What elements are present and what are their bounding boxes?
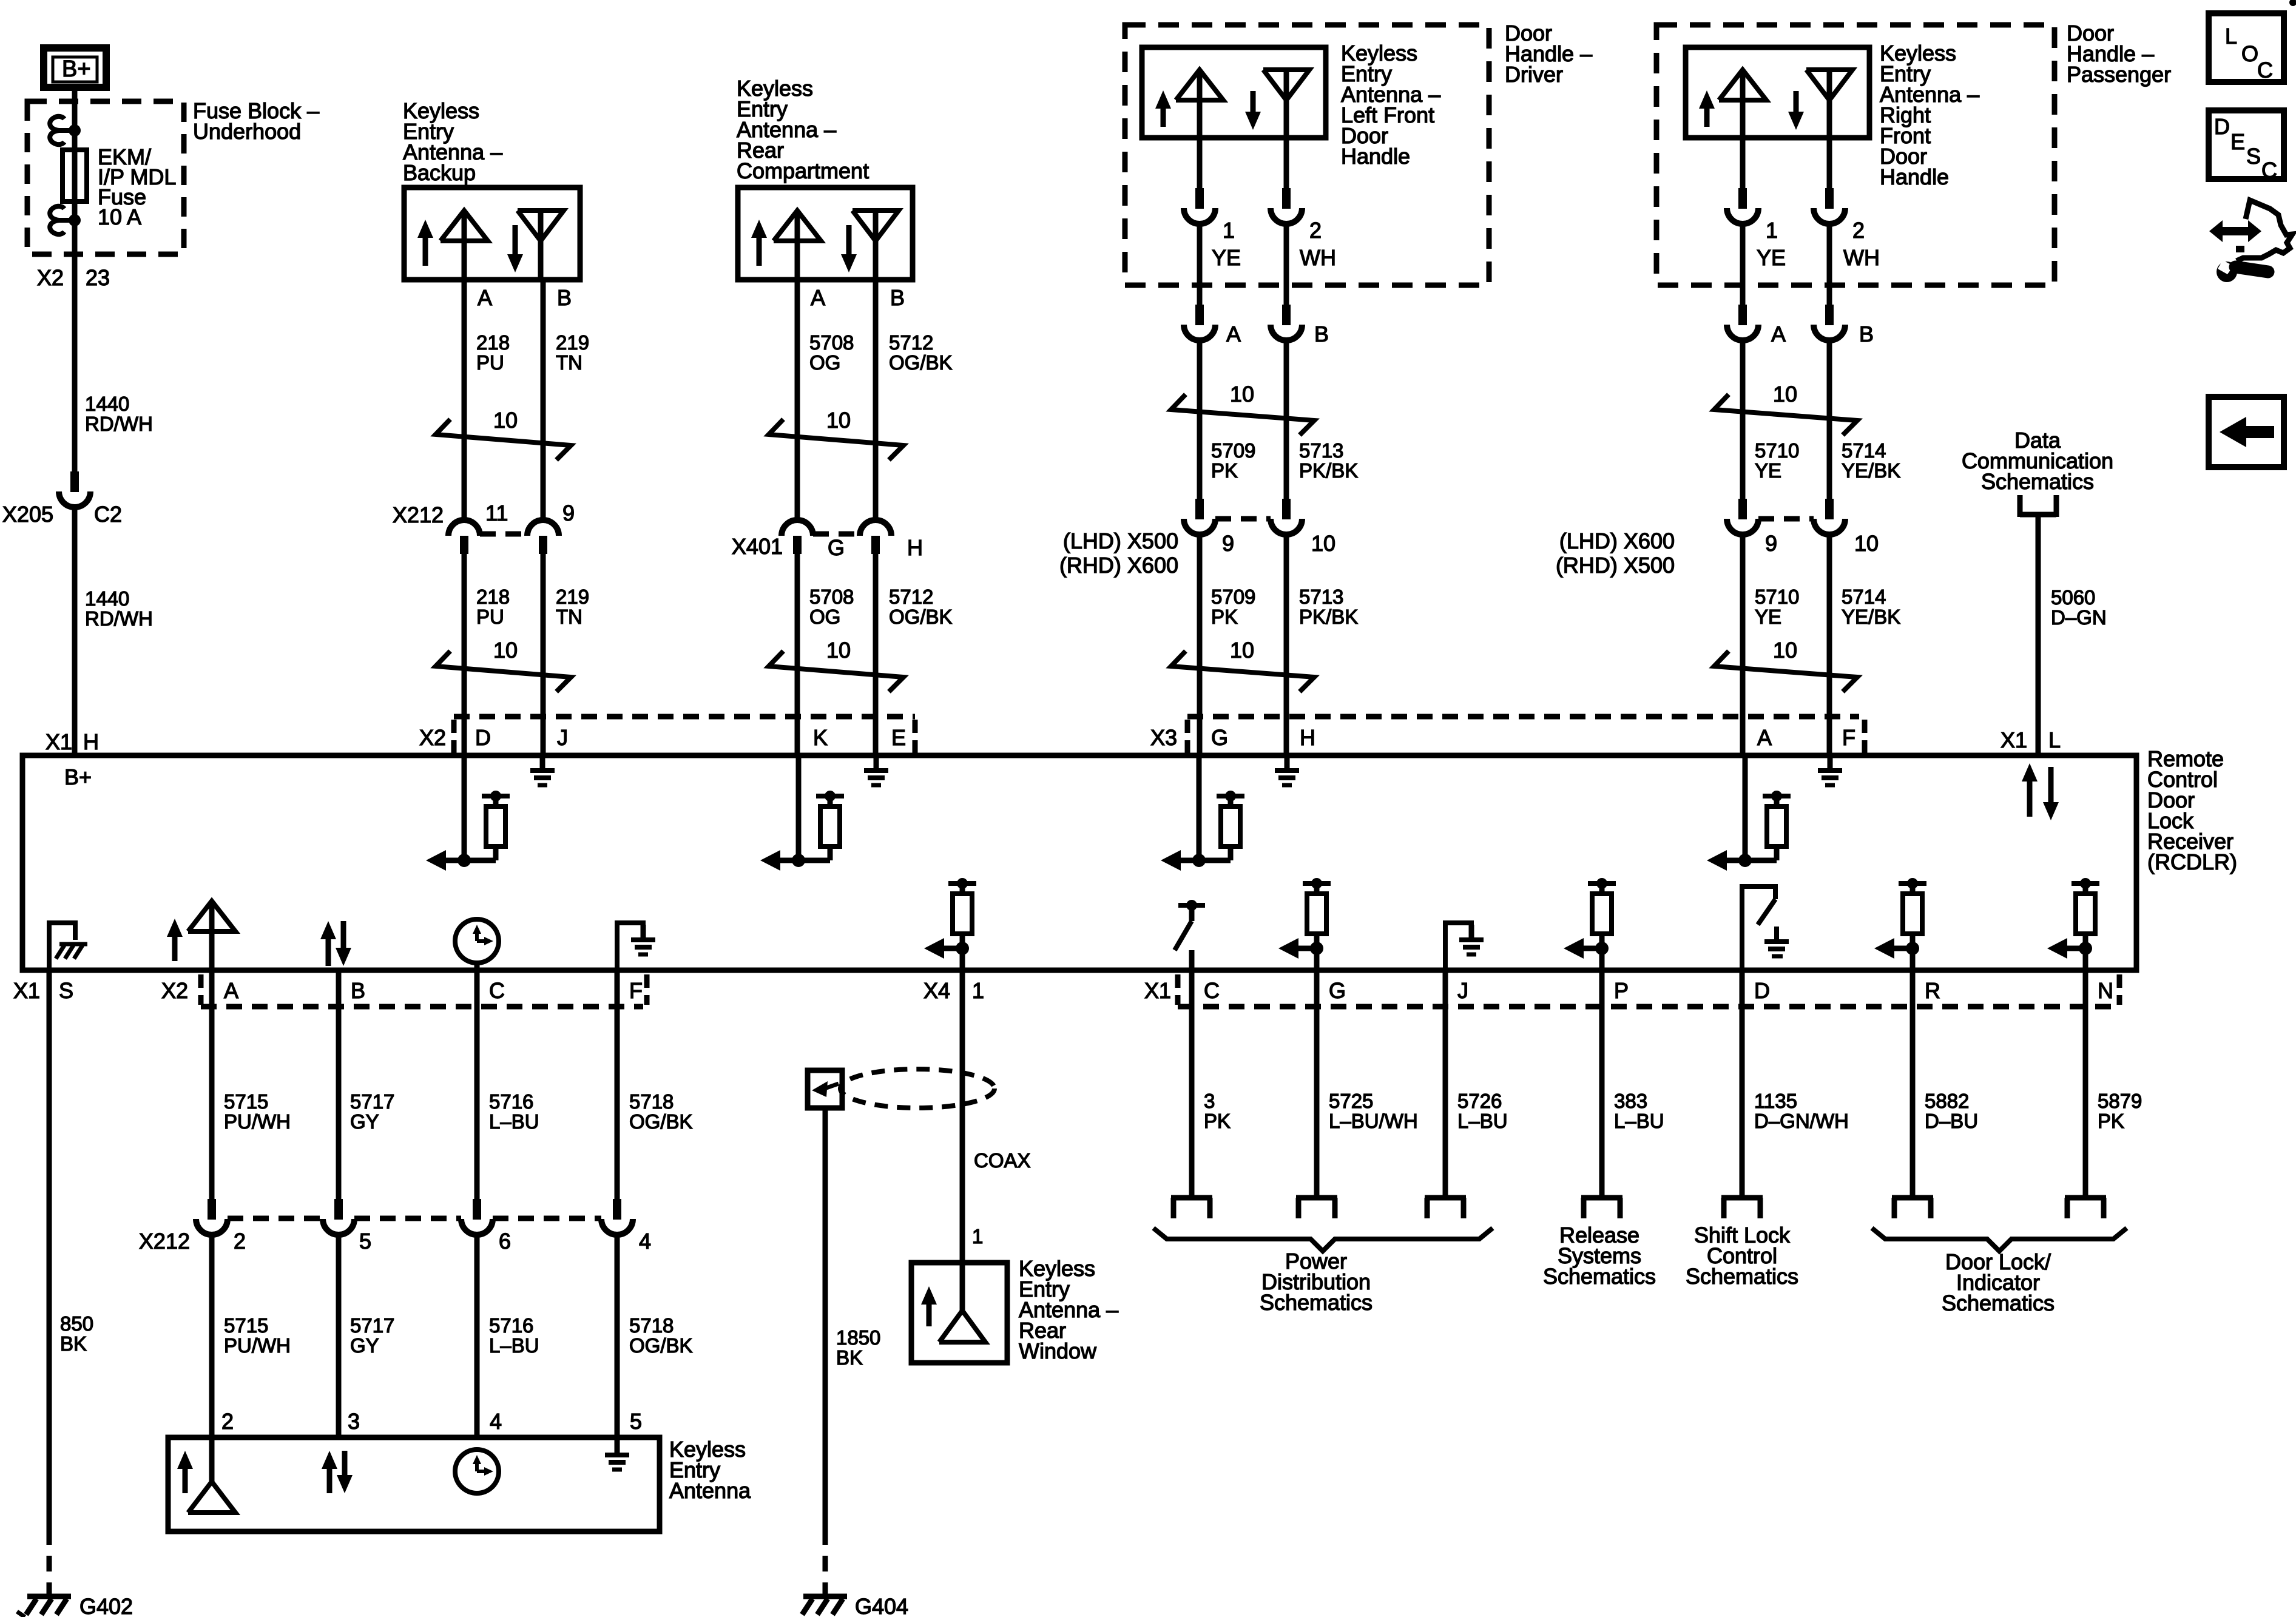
svg-text:PU/WH: PU/WH (224, 1334, 291, 1357)
wire COAX upper (960, 970, 965, 1263)
driver door handle connector pin 2 (1271, 188, 1302, 224)
svg-text:B+: B+ (62, 56, 91, 82)
backup antenna up arrow (417, 220, 433, 266)
driver receive antenna (1263, 70, 1309, 138)
svg-text:6: 6 (499, 1229, 511, 1254)
driver antenna down arrow (1245, 91, 1261, 130)
wire labels 218 PU / 219 TN lower (476, 586, 589, 628)
connector X212 pin 2 (196, 1199, 228, 1235)
svg-text:Antenna: Antenna (669, 1478, 751, 1503)
svg-text:Underhood: Underhood (193, 119, 301, 144)
svg-text:Schematics: Schematics (1942, 1291, 2055, 1315)
keyless antenna up arrow (177, 1451, 193, 1493)
bus connection hook lower (50, 206, 75, 234)
svg-text:1: 1 (1766, 218, 1778, 243)
svg-text:5718: 5718 (629, 1090, 674, 1113)
data link terminal (2020, 495, 2056, 517)
connector X212 dashed link (480, 532, 527, 537)
wire 5713 PK/BK lower (1284, 535, 1289, 755)
svg-text:23: 23 (86, 265, 110, 290)
svg-text:GY: GY (350, 1110, 379, 1133)
svg-text:9: 9 (1765, 531, 1777, 556)
svg-text:10 A: 10 A (98, 204, 141, 229)
rear pin labels A B (811, 285, 905, 310)
svg-text:2: 2 (1852, 218, 1865, 243)
svg-text:5882: 5882 (1925, 1090, 1969, 1112)
svg-text:X401: X401 (732, 534, 783, 559)
wire label COAX (974, 1149, 1031, 1172)
svg-text:4: 4 (490, 1409, 502, 1434)
wire labels 5715/5717/5716/5718 upper (224, 1090, 693, 1133)
svg-text:BK: BK (836, 1346, 863, 1369)
door handle passenger label (2067, 21, 2171, 87)
passenger antenna wire 1 (1740, 138, 1746, 188)
svg-text:PU: PU (476, 606, 504, 628)
svg-text:5717: 5717 (350, 1090, 394, 1113)
wire 5715 PU/WH lower (209, 1235, 215, 1437)
svg-text:5716: 5716 (489, 1314, 533, 1337)
passenger wire WH (1827, 224, 1832, 305)
rear antenna up arrow (751, 220, 767, 266)
RCDLR switch pin C2 (1175, 900, 1205, 970)
wire 5709 PK lower (1197, 535, 1203, 755)
wire 5716 L-BU upper (474, 970, 480, 1199)
svg-text:TN: TN (556, 351, 582, 374)
door handle driver label (1505, 21, 1592, 87)
svg-text:A: A (478, 285, 492, 310)
svg-text:10: 10 (826, 638, 851, 663)
shift lock control schematics label (1686, 1223, 1798, 1289)
pigtail terminal pin N (2065, 1198, 2106, 1218)
passenger connector pin A (1727, 305, 1758, 340)
svg-text:9: 9 (562, 501, 575, 525)
passenger door handle connector pin 2 (1814, 188, 1845, 224)
svg-text:5718: 5718 (629, 1314, 674, 1337)
LOC icon (2209, 13, 2284, 83)
svg-text:GY: GY (350, 1334, 379, 1357)
svg-text:218: 218 (476, 331, 510, 354)
svg-text:S: S (59, 978, 73, 1003)
wire labels 218 PU / 219 TN upper (476, 331, 589, 374)
svg-text:H: H (1300, 725, 1315, 750)
passenger antenna down arrow (1788, 91, 1804, 130)
svg-text:COAX: COAX (974, 1149, 1031, 1172)
connector X212 pin 5 (323, 1199, 354, 1235)
svg-text:B: B (351, 978, 365, 1003)
svg-text:11: 11 (485, 501, 508, 525)
RCDLR RF input pin G (1161, 755, 1244, 871)
driver connector pin B (1271, 305, 1302, 340)
connector X500 pin 10 (1271, 499, 1302, 535)
svg-text:5717: 5717 (350, 1314, 394, 1337)
pigtail terminal pin R (1892, 1198, 1933, 1218)
coax shield dashed ellipse (840, 1069, 994, 1108)
keyless antenna ground (605, 1437, 629, 1470)
svg-text:D–GN: D–GN (2051, 606, 2107, 629)
svg-text:X3: X3 (1150, 725, 1177, 750)
passenger transmit antenna (1719, 70, 1766, 138)
svg-text:L: L (2225, 24, 2237, 49)
wire labels 5708 OG / 5712 OG/BK upper (809, 331, 953, 374)
bottom pin labels X2 A B C F (161, 978, 643, 1003)
svg-text:B: B (890, 285, 905, 310)
twisted pair marker 10 (backup lower) (436, 638, 571, 692)
pin label X1 H (46, 729, 99, 754)
wire label 1850 BK (836, 1326, 880, 1369)
svg-text:X1: X1 (13, 978, 40, 1003)
RCDLR antenna pin A2 (167, 901, 235, 970)
wire 219 TN upper (541, 280, 546, 520)
twisted pair marker 10 (rear upper) (769, 408, 903, 460)
page mark bottom left (17, 1612, 25, 1617)
RCDLR clock pin C (455, 919, 499, 970)
wire 218 PU lower (462, 554, 467, 755)
svg-text:PK/BK: PK/BK (1299, 606, 1358, 628)
svg-text:S: S (2246, 144, 2261, 169)
connector X600 pin 10 (1814, 499, 1845, 535)
wire label 1440 RD/WH (upper) (85, 393, 153, 435)
connector X401 labels (732, 534, 923, 560)
keyless entry antenna backup label (403, 98, 502, 185)
driver antenna up arrow (1155, 90, 1171, 127)
twisted pair marker 10 (backup upper) (436, 408, 571, 460)
wire 5714 YE/BK lower (1827, 535, 1832, 755)
svg-text:5710: 5710 (1755, 586, 1799, 608)
svg-text:B: B (1859, 322, 1874, 346)
RCDLR module box (22, 755, 2136, 970)
wire 5060 D-GN (2036, 515, 2041, 755)
twisted pair marker 10 (passenger lower) (1714, 638, 1857, 692)
svg-text:219: 219 (556, 331, 589, 354)
page mark top right (2289, 0, 2296, 6)
svg-text:YE: YE (1757, 245, 1786, 270)
keyless entry antenna rear compartment label (737, 76, 869, 183)
svg-text:K: K (813, 725, 828, 750)
pigtail terminal pin G (1296, 1198, 1337, 1218)
svg-text:4: 4 (639, 1229, 651, 1254)
driver wire WH (1284, 224, 1289, 305)
door handle driver dashed outline (1125, 25, 1489, 285)
bottom pin labels X1 C G J P D R N (1144, 978, 2113, 1003)
svg-text:A: A (1757, 725, 1772, 750)
wire 5726 L-BU (1443, 970, 1448, 1198)
passenger wire color labels YE WH (1757, 245, 1880, 270)
wire 5709 PK upper (1197, 340, 1203, 499)
svg-text:383: 383 (1614, 1090, 1647, 1112)
wire 850 BK (47, 970, 52, 1596)
RCDLR rx-tx arrows pin B (320, 921, 351, 966)
backup transmit antenna (441, 211, 488, 280)
svg-text:N: N (2098, 978, 2113, 1003)
RCDLR internal B+ label (64, 765, 92, 789)
wire label 383 L-BU (1614, 1090, 1664, 1132)
keyless antenna transmit antenna (188, 1437, 235, 1513)
svg-text:5725: 5725 (1329, 1090, 1373, 1112)
svg-text:X212: X212 (139, 1229, 190, 1254)
junction dot lower (69, 214, 81, 226)
RCDLR name label (2147, 746, 2237, 874)
svg-text:5716: 5716 (489, 1090, 533, 1113)
pigtail terminal pin J (1425, 1198, 1466, 1218)
svg-text:A: A (224, 978, 238, 1003)
svg-text:1: 1 (972, 978, 984, 1003)
bottom pin labels X4 1 (923, 978, 984, 1003)
svg-text:5709: 5709 (1211, 439, 1255, 462)
wire labels 5708 OG / 5712 OG/BK lower (809, 586, 953, 628)
svg-text:(RHD) X600: (RHD) X600 (1059, 553, 1178, 578)
wire 383 L-BU (1599, 970, 1605, 1198)
wire 5710 YE lower (1740, 535, 1746, 755)
svg-text:5714: 5714 (1842, 439, 1886, 462)
svg-text:1135: 1135 (1754, 1090, 1797, 1112)
connector X212 pin 11 (448, 520, 480, 554)
svg-text:A: A (1226, 322, 1241, 346)
svg-text:2: 2 (234, 1229, 246, 1254)
svg-text:5715: 5715 (224, 1314, 268, 1337)
svg-text:X2: X2 (37, 265, 64, 290)
connector X401 dashed link (813, 532, 860, 537)
svg-text:5713: 5713 (1299, 439, 1343, 462)
svg-text:850: 850 (60, 1312, 93, 1335)
RCDLR RF input pin D (426, 755, 510, 871)
svg-text:5060: 5060 (2051, 586, 2095, 609)
connector X2 dashed row (top) (454, 717, 915, 754)
svg-text:X1: X1 (1144, 978, 1171, 1003)
svg-text:Schematics: Schematics (1543, 1264, 1656, 1289)
svg-text:P: P (1614, 978, 1629, 1003)
driver antenna label (1341, 41, 1440, 169)
pigtail terminal pin D (1721, 1198, 1763, 1218)
wire 5714 YE/BK upper (1827, 340, 1832, 499)
svg-text:Window: Window (1019, 1338, 1097, 1363)
passenger antenna up arrow (1699, 90, 1715, 127)
rear transmit antenna (774, 211, 821, 280)
connector X1 dashed row (bottom) (1178, 974, 2119, 1007)
RCDLR RF input pin N (2047, 878, 2099, 970)
svg-text:10: 10 (1230, 382, 1254, 407)
coax shield box (808, 1070, 842, 1108)
rear receive antenna (853, 211, 899, 280)
RCDLR RF input pin P (1564, 878, 1616, 970)
svg-text:Schematics: Schematics (1981, 469, 2094, 494)
svg-text:TN: TN (556, 606, 582, 628)
svg-text:X2: X2 (161, 978, 188, 1003)
keyless entry antenna pin labels 2 3 4 5 (221, 1409, 642, 1434)
svg-text:5708: 5708 (809, 331, 854, 354)
svg-text:X1: X1 (2001, 727, 2027, 752)
svg-text:H: H (907, 535, 923, 560)
svg-text:1: 1 (972, 1225, 983, 1247)
svg-text:PU/WH: PU/WH (224, 1110, 291, 1133)
svg-text:5726: 5726 (1457, 1090, 1502, 1112)
wire labels 5709 PK / 5713 PK-BK upper (1211, 439, 1358, 482)
svg-text:C: C (2257, 58, 2273, 83)
fuse block label (193, 98, 319, 144)
svg-text:Passenger: Passenger (2067, 62, 2171, 87)
passenger pin labels 1 2 (1766, 218, 1865, 243)
svg-text:PK: PK (1211, 606, 1238, 628)
driver wire color labels YE WH (1212, 245, 1336, 270)
svg-text:5710: 5710 (1755, 439, 1799, 462)
twisted pair marker 10 (driver lower) (1171, 638, 1314, 692)
wire 5712 OG/BK lower (873, 554, 879, 755)
RCDLR RF input pin K (760, 755, 844, 871)
connector X500 pin 9 (1184, 499, 1215, 535)
svg-text:C: C (2261, 158, 2277, 183)
rear window antenna pin 1 (972, 1225, 983, 1247)
svg-text:Compartment: Compartment (737, 158, 869, 183)
connector X401 pin G (782, 520, 813, 554)
back arrow icon (2209, 397, 2284, 467)
svg-text:C: C (1204, 978, 1220, 1003)
svg-text:A: A (811, 285, 825, 310)
svg-text:D: D (475, 725, 491, 750)
release systems schematics label (1543, 1223, 1656, 1289)
connector X212 bottom labels (139, 1229, 651, 1254)
wire labels 5710 YE / 5714 YE-BK upper (1755, 439, 1900, 482)
passenger connector pin B (1814, 305, 1845, 340)
passenger wire YE (1740, 224, 1746, 305)
pin label X1 L (2001, 727, 2061, 752)
passenger door handle connector pin 1 (1727, 188, 1758, 224)
svg-text:C: C (489, 978, 505, 1003)
connector X500 dashed link (1215, 516, 1271, 522)
rear window antenna symbol (921, 1263, 985, 1342)
svg-text:YE: YE (1755, 606, 1781, 628)
wire label 5882 D-BU (1925, 1090, 1978, 1132)
svg-text:L–BU: L–BU (1614, 1110, 1664, 1132)
svg-text:B+: B+ (64, 765, 92, 789)
svg-text:C2: C2 (94, 502, 122, 527)
svg-text:10: 10 (493, 408, 518, 433)
wire 219 TN lower (541, 554, 546, 755)
svg-text:B: B (1314, 322, 1329, 346)
connector X401 pin H (860, 520, 891, 554)
wire labels 5715/5717/5716/5718 lower (224, 1314, 693, 1357)
connector X212 bottom dashed link (228, 1216, 601, 1221)
wire labels 3 PK / 5725 / 5726 (1204, 1090, 1508, 1132)
svg-text:(LHD) X500: (LHD) X500 (1063, 528, 1178, 553)
svg-text:10: 10 (1773, 382, 1797, 407)
fuse block dashed outline (27, 101, 184, 254)
svg-text:2: 2 (221, 1409, 234, 1434)
RCDLR RF input pin A (1707, 755, 1791, 871)
wire 5717 GY lower (336, 1235, 342, 1437)
DESC icon (2209, 110, 2284, 183)
svg-text:1: 1 (1223, 218, 1235, 243)
svg-text:X1: X1 (46, 729, 72, 754)
RCDLR ground pin J2 (1445, 923, 1484, 970)
connector X212 labels (393, 501, 575, 527)
RCDLR ground pin H (1275, 755, 1299, 785)
svg-text:5712: 5712 (889, 586, 933, 608)
passenger antenna label (1880, 41, 1979, 189)
svg-text:G404: G404 (855, 1594, 908, 1617)
RCDLR data arrows pin L (2022, 763, 2059, 820)
wire 5715 PU/WH upper (209, 970, 215, 1199)
svg-text:3: 3 (1204, 1090, 1215, 1112)
wire labels 5710 YE / 5714 YE-BK lower (1755, 586, 1900, 628)
svg-text:PK: PK (1211, 459, 1238, 482)
svg-text:J: J (1457, 978, 1468, 1003)
keyless entry antenna rear compartment box (738, 187, 913, 280)
svg-text:3: 3 (348, 1409, 360, 1434)
keyless antenna rx-tx arrows (322, 1451, 353, 1493)
passenger antenna wire 2 (1827, 138, 1832, 188)
RCDLR ground pin E (864, 755, 888, 785)
svg-text:B: B (557, 285, 572, 310)
svg-text:E: E (891, 725, 906, 750)
passenger receive antenna (1806, 70, 1852, 138)
fuse block pin labels X2 23 (37, 265, 110, 290)
passenger pin labels A B (1771, 322, 1874, 346)
svg-text:YE: YE (1212, 245, 1241, 270)
bus connection hook upper (50, 116, 75, 144)
svg-text:WH: WH (1300, 245, 1336, 270)
backup antenna down arrow (507, 225, 523, 272)
svg-text:5715: 5715 (224, 1090, 268, 1113)
svg-text:YE/BK: YE/BK (1842, 459, 1900, 482)
driver transmit antenna (1176, 70, 1223, 138)
wire 5725 L-BU/WH (1314, 970, 1320, 1198)
svg-text:G: G (1211, 725, 1228, 750)
driver connector pin A (1184, 305, 1215, 340)
svg-text:G: G (1329, 978, 1346, 1003)
door lock indicator schematics label (1942, 1249, 2055, 1315)
wire 5710 YE upper (1740, 340, 1746, 499)
wire 5718 OG/BK upper (615, 970, 620, 1199)
svg-text:10: 10 (1230, 638, 1254, 663)
wire 218 PU upper (462, 280, 467, 520)
RCDLR RF input pin G2 (1278, 878, 1331, 970)
svg-text:5879: 5879 (2098, 1090, 2142, 1112)
door lock indicator brace (1872, 1228, 2127, 1251)
svg-text:L–BU: L–BU (1457, 1110, 1508, 1132)
top pin labels X2 D J K E (419, 725, 906, 750)
connector X600 dashed link (1758, 516, 1814, 522)
twisted pair marker 10 (driver upper) (1171, 382, 1314, 435)
svg-text:E: E (2230, 129, 2245, 154)
svg-text:9: 9 (1222, 531, 1234, 556)
driver antenna wire 2 (1284, 138, 1289, 188)
svg-text:X212: X212 (393, 502, 444, 527)
svg-text:L–BU: L–BU (489, 1110, 539, 1133)
wire label 850 BK (60, 1312, 93, 1355)
power distribution brace (1153, 1228, 1493, 1251)
svg-text:5712: 5712 (889, 331, 933, 354)
svg-text:H: H (83, 729, 99, 754)
svg-text:10: 10 (826, 408, 851, 433)
driver wire YE (1197, 224, 1203, 305)
wire 5717 GY upper (336, 970, 342, 1199)
pigtail terminal pin C (1171, 1198, 1212, 1218)
driver door handle connector pin 1 (1184, 188, 1215, 224)
keyless entry antenna right front door handle box (1686, 47, 1869, 138)
keyless entry antenna box (168, 1437, 660, 1531)
svg-text:OG: OG (809, 606, 840, 628)
bottom pin labels X1 S (13, 978, 73, 1003)
backup pin labels A B (478, 285, 572, 310)
svg-text:2: 2 (1309, 218, 1322, 243)
keyless entry antenna label (669, 1437, 751, 1503)
svg-text:WH: WH (1843, 245, 1880, 270)
svg-text:RD/WH: RD/WH (85, 413, 153, 435)
svg-text:YE: YE (1755, 459, 1781, 482)
svg-text:(RHD) X500: (RHD) X500 (1556, 553, 1675, 578)
svg-text:Handle: Handle (1341, 144, 1410, 169)
svg-text:5709: 5709 (1211, 586, 1255, 608)
svg-text:G: G (828, 535, 845, 560)
